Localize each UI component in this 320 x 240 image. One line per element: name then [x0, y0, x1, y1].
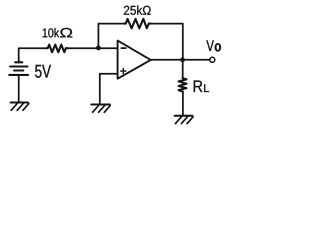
label 10k ohm: [43, 28, 73, 38]
node A junction dot: [96, 46, 101, 51]
wire op-amp output to terminal Vo: [151, 59, 210, 61]
wire battery bottom to ground G1: [18, 75, 20, 103]
op-amp triangle U1: [118, 41, 151, 79]
ground G2 bar: [91, 104, 110, 106]
battery plate long: [10, 65, 27, 67]
terminal Vo open circle: [210, 57, 215, 62]
wire node A to op-amp inverting input: [98, 47, 117, 49]
resistor RL zigzag: [179, 78, 187, 92]
ground G1 bar: [11, 102, 28, 104]
battery 5V plate short top: [15, 61, 22, 63]
resistor 10k zigzag: [46, 45, 67, 53]
ground G1 hatches: [11, 104, 17, 111]
node B junction dot: [180, 57, 185, 62]
ground G3 bar: [175, 115, 193, 117]
label Vo V: [206, 40, 214, 51]
label Vo o subscript: [215, 43, 221, 51]
wire op-amp noninverting input to ground stub: [100, 74, 118, 105]
battery plate long bottom: [9, 74, 28, 76]
label RL R: [194, 81, 203, 93]
wire RL bottom to ground G3: [182, 92, 184, 116]
battery plate short: [14, 69, 23, 71]
wire battery top to resistor R1: [19, 48, 47, 62]
ground G2 hatches: [93, 106, 99, 113]
wire resistor R1 to node A: [68, 47, 99, 49]
resistor 25k zigzag: [124, 19, 151, 28]
wire feedback right vertical to node B: [151, 24, 183, 60]
label 25k ohm: [124, 5, 151, 14]
op-amp minus sign: [121, 47, 126, 49]
wire node B to load resistor RL: [182, 60, 184, 78]
label 5V: [35, 65, 51, 78]
label RL L subscript: [204, 84, 209, 92]
op-amp plus sign: [121, 70, 126, 72]
wire feedback left vertical: [98, 24, 124, 48]
ground G3 hatches: [175, 117, 181, 124]
